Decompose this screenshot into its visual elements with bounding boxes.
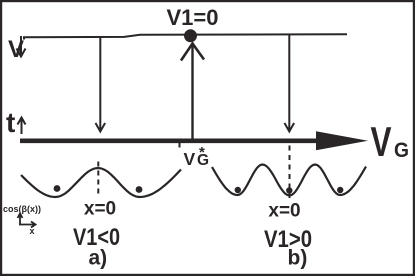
particle dot a right well <box>136 186 143 193</box>
svg-text:cos(β(x)): cos(β(x)) <box>3 204 41 214</box>
svg-text:t: t <box>6 107 15 138</box>
svg-text:G: G <box>394 139 409 162</box>
VG* tick below axis <box>179 143 181 148</box>
up arrowhead long barbs <box>181 44 204 61</box>
VG thick axis <box>20 139 318 144</box>
svg-text:x=0: x=0 <box>84 199 116 220</box>
cos legend axis <box>18 214 36 228</box>
down arrow 1 <box>96 38 106 132</box>
svg-text:V1=0: V1=0 <box>167 5 219 30</box>
svg-text:*: * <box>199 144 205 161</box>
small down arrow over V label <box>17 36 26 57</box>
V axis top line <box>24 34 347 39</box>
potential curve b <box>212 165 366 196</box>
svg-text:x=0: x=0 <box>268 201 300 222</box>
particle dot b left well <box>235 187 241 193</box>
particle dot b right well <box>337 187 343 193</box>
t up arrow <box>18 118 26 135</box>
dashed line x=0 a <box>97 162 99 194</box>
svg-text:x: x <box>30 226 35 236</box>
particle dot b center well <box>286 187 292 193</box>
down arrow 2 <box>285 35 295 132</box>
svg-text:V: V <box>184 149 196 169</box>
svg-text:b): b) <box>288 247 308 270</box>
svg-text:a): a) <box>89 247 108 270</box>
dashed line x=0 b <box>289 146 291 200</box>
svg-text:V: V <box>371 118 392 165</box>
potential curve a <box>21 168 181 197</box>
particle dot a left well <box>54 185 61 192</box>
up arrow shaft at VG* <box>191 44 193 139</box>
VG axis arrowhead <box>316 131 368 150</box>
node circle V1=0 <box>184 29 197 42</box>
